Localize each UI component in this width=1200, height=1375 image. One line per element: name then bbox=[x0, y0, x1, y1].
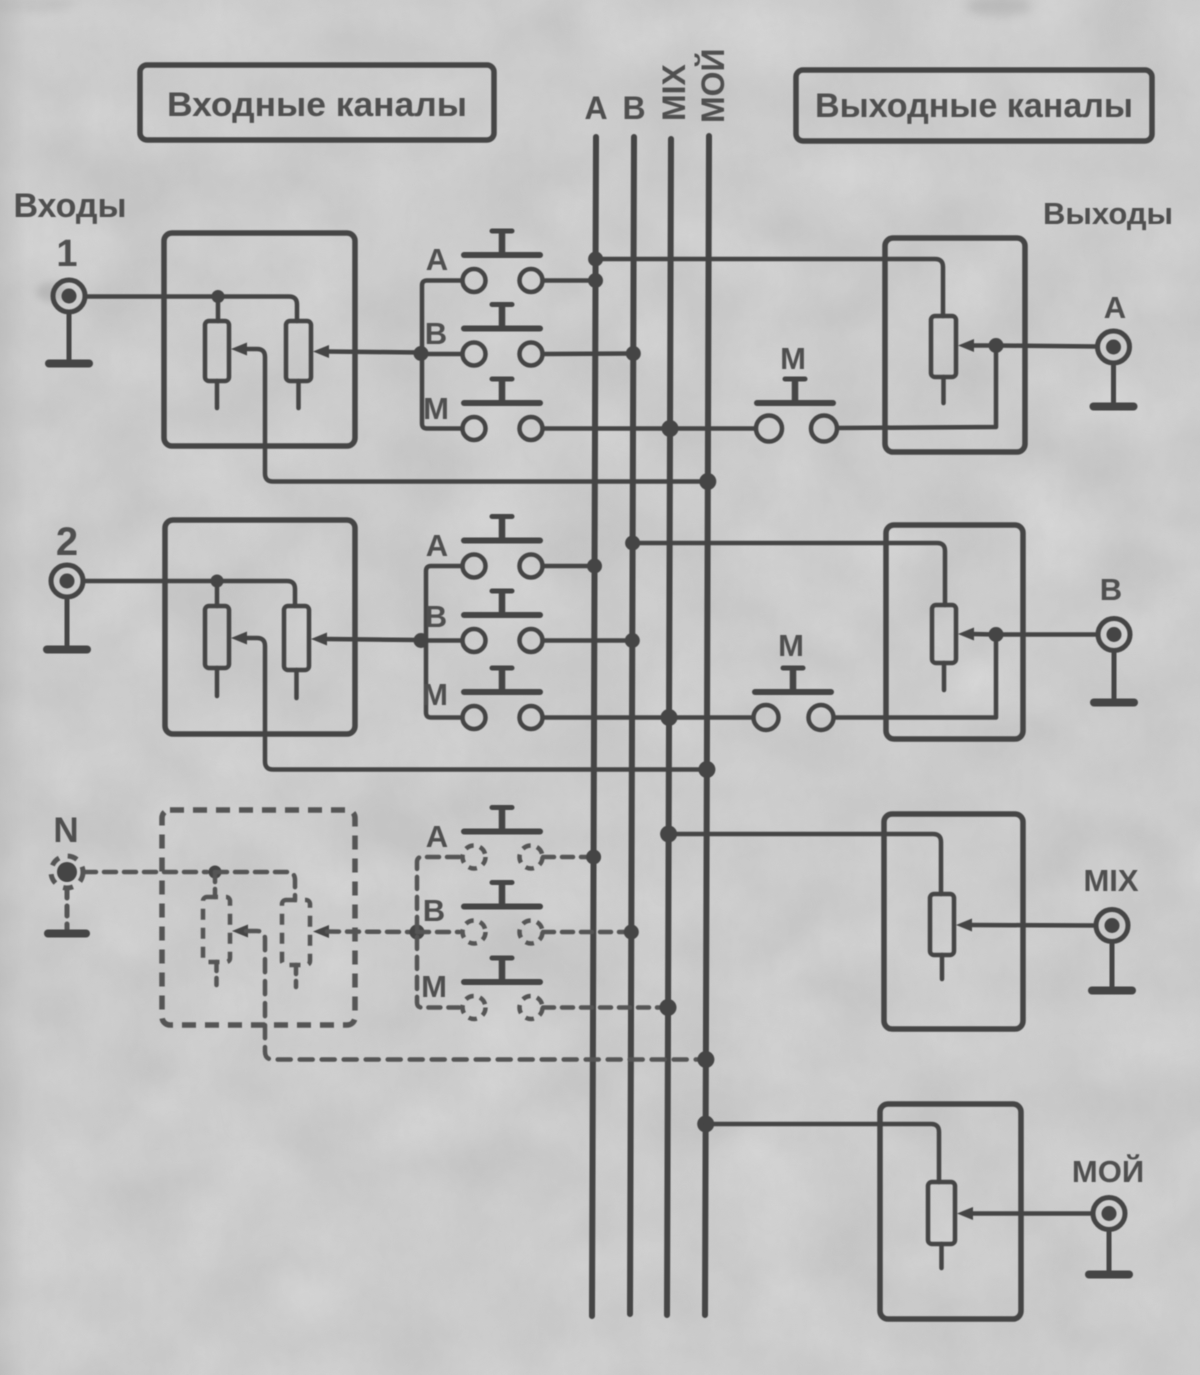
label chN B bbox=[423, 893, 445, 928]
svg-text:B: B bbox=[423, 893, 445, 928]
output jack MIX bbox=[1096, 910, 1128, 942]
box output A bbox=[885, 238, 1025, 452]
ch1 selector branch bbox=[422, 281, 462, 429]
wire busMOJ-outMOJ bbox=[706, 1124, 939, 1182]
wiper RNa arrow bbox=[232, 925, 248, 938]
label N bbox=[53, 811, 78, 850]
wire ch1 monitor send bbox=[244, 349, 708, 482]
svg-text:МОЙ: МОЙ bbox=[1072, 1153, 1144, 1189]
label pbM outA bbox=[780, 341, 806, 376]
switch ch1-B bbox=[463, 305, 543, 366]
svg-text:Выходные каналы: Выходные каналы bbox=[815, 87, 1133, 125]
stem outB bbox=[942, 663, 947, 690]
wire chNM-busMIX bbox=[543, 1005, 668, 1010]
pb M outB actuator bbox=[755, 668, 831, 692]
input-channels title text bbox=[167, 86, 467, 124]
wire ch1M-pbM bbox=[543, 426, 755, 431]
label jack MOJ bbox=[1072, 1153, 1144, 1189]
node chNB busB bbox=[624, 925, 639, 940]
wire ch2A-busA bbox=[543, 564, 595, 569]
wire ch2M-pbM bbox=[543, 715, 753, 720]
label pbM outB bbox=[778, 628, 804, 663]
svg-text:Входы: Входы bbox=[13, 187, 126, 225]
svg-text:A: A bbox=[1104, 290, 1126, 325]
bus MOJ bbox=[705, 136, 709, 1315]
wiper outMOJ arrow bbox=[957, 1207, 973, 1220]
svg-text:N: N bbox=[53, 811, 78, 850]
pb M outA actuator bbox=[757, 379, 833, 403]
box output B bbox=[886, 525, 1023, 739]
stem R1a bbox=[215, 381, 220, 408]
wire busB-outB bbox=[633, 543, 945, 605]
svg-text:2: 2 bbox=[56, 520, 78, 564]
box input channel N bbox=[162, 810, 355, 1025]
ground jackN bbox=[48, 888, 86, 934]
wire ch2B-busB bbox=[543, 638, 632, 643]
ground jackA bbox=[1094, 363, 1134, 407]
switch chN-A bbox=[463, 808, 543, 869]
node outB post-fader bbox=[989, 627, 1004, 642]
node ch2M MIX bbox=[661, 709, 678, 726]
wiper R2b arrow bbox=[311, 633, 327, 646]
node ch1-MOJ bbox=[699, 473, 716, 490]
ground jackMOJ bbox=[1089, 1230, 1129, 1275]
svg-text:B: B bbox=[622, 90, 645, 126]
label Vyhody bbox=[1043, 196, 1173, 231]
wire jack2-box bbox=[84, 579, 213, 584]
wiper outMIX arrow bbox=[956, 919, 972, 932]
svg-text:A: A bbox=[426, 242, 448, 277]
switch ch2-M bbox=[463, 668, 543, 729]
pot RNa (monitor send) bbox=[203, 897, 230, 962]
stem outA bbox=[941, 377, 946, 403]
bus B bbox=[630, 137, 634, 1314]
node feedMIX bbox=[660, 826, 677, 843]
wire chN monitor send bbox=[246, 931, 706, 1060]
input jack 1 bbox=[53, 280, 85, 312]
label chN M bbox=[421, 969, 447, 1004]
stem R1b bbox=[296, 381, 301, 408]
pot R2b (channel fader) bbox=[284, 606, 309, 670]
wire chN to RNa bbox=[213, 872, 218, 897]
output jack MOJ bbox=[1093, 1198, 1125, 1230]
node ch2A busA bbox=[587, 559, 602, 574]
wire pbM-outA bbox=[838, 346, 996, 429]
wire outMIX-jack bbox=[970, 923, 1096, 928]
svg-text:B: B bbox=[1100, 572, 1122, 607]
ground jack1 bbox=[49, 312, 89, 364]
pb M outB contacts bbox=[754, 705, 834, 730]
pot RNb (channel fader) bbox=[282, 900, 310, 965]
input jack N bbox=[51, 856, 83, 888]
node chNA busA bbox=[586, 850, 601, 865]
node feedB busB bbox=[625, 536, 640, 551]
jack1 smudge bbox=[36, 282, 68, 302]
box input channel 2 bbox=[165, 520, 355, 734]
wire outB wiper bbox=[972, 632, 994, 637]
svg-text:A: A bbox=[584, 90, 607, 126]
node ch1 split bbox=[212, 290, 225, 303]
wire outA wiper bbox=[972, 343, 994, 348]
stem RNa bbox=[214, 962, 219, 985]
box output MOJ bbox=[880, 1104, 1021, 1319]
switch ch2-A bbox=[463, 517, 543, 578]
switch chN-M bbox=[463, 958, 543, 1019]
label ch2 A bbox=[426, 528, 448, 563]
wire chNB-busB bbox=[543, 930, 631, 935]
label jack A bbox=[1104, 290, 1126, 325]
bus label MIX bbox=[656, 63, 692, 121]
wiper R1b arrow bbox=[313, 345, 329, 358]
input jack 2 bbox=[51, 565, 83, 597]
switch ch1-M bbox=[463, 379, 543, 440]
node ch2 split bbox=[211, 575, 224, 588]
label ch1 B bbox=[425, 316, 447, 351]
pot outMIX fader bbox=[930, 894, 954, 955]
node ch2-MOJ bbox=[698, 761, 715, 778]
wire chN fader out bbox=[327, 929, 415, 934]
label ch2 B bbox=[425, 599, 447, 634]
switch ch1-A bbox=[463, 231, 543, 292]
stem RNb bbox=[294, 965, 299, 987]
label 1 bbox=[56, 233, 77, 275]
svg-text:M: M bbox=[780, 341, 806, 376]
pb M outA contacts bbox=[756, 416, 837, 442]
svg-text:A: A bbox=[426, 528, 448, 563]
stem R2a bbox=[215, 668, 220, 696]
output jack B bbox=[1098, 619, 1130, 651]
svg-text:MIX: MIX bbox=[1083, 863, 1138, 898]
wire chN to RNb bbox=[215, 872, 295, 900]
node outA post-fader bbox=[989, 338, 1004, 353]
bus MIX bbox=[667, 139, 671, 1315]
stem outMIX bbox=[940, 955, 945, 979]
bus label B bbox=[622, 90, 645, 126]
node ch1B busB bbox=[626, 346, 641, 361]
output jack A bbox=[1098, 331, 1130, 363]
pot outB fader bbox=[932, 605, 956, 663]
chN selector branch bbox=[417, 857, 459, 1008]
switch ch2-B bbox=[463, 591, 543, 652]
node chN split bbox=[209, 866, 222, 879]
svg-text:МОЙ: МОЙ bbox=[695, 48, 731, 123]
label ch2 M bbox=[422, 677, 448, 712]
svg-text:Входные каналы: Входные каналы bbox=[167, 86, 467, 124]
wire ch2 monitor send bbox=[244, 638, 707, 770]
edge shading bbox=[0, 0, 26, 1375]
label jack B bbox=[1100, 572, 1122, 607]
wire outA-jackA bbox=[996, 346, 1097, 347]
wiper outB arrow bbox=[958, 628, 974, 641]
node chN branch bbox=[410, 925, 425, 940]
wiper R1a arrow bbox=[231, 343, 247, 356]
wiper R2a arrow bbox=[231, 632, 247, 645]
wire ch1 to R1b bbox=[218, 297, 297, 322]
stem outMOJ bbox=[939, 1244, 944, 1268]
node feedMOJ bbox=[697, 1116, 714, 1133]
ch2 selector branch bbox=[426, 566, 462, 718]
wire ch2 to R2a bbox=[215, 581, 220, 606]
wire ch1 to R1a bbox=[216, 297, 221, 322]
node feedA busA bbox=[588, 252, 603, 267]
svg-text:B: B bbox=[425, 599, 447, 634]
wire jackN-box bbox=[84, 870, 207, 875]
ground jack2 bbox=[47, 597, 87, 650]
label Vhody bbox=[13, 187, 126, 225]
wire busA-outA bbox=[596, 259, 943, 316]
node chN-MOJ bbox=[697, 1051, 714, 1068]
ground jackMIX bbox=[1092, 942, 1132, 991]
label 2 bbox=[56, 520, 78, 564]
svg-text:A: A bbox=[426, 819, 448, 854]
svg-text:Выходы: Выходы bbox=[1043, 196, 1173, 231]
pot R2a (monitor send) bbox=[205, 606, 229, 668]
node ch2B busB bbox=[625, 633, 640, 648]
stem R2b bbox=[294, 670, 299, 698]
wire ch1A-busA bbox=[543, 278, 596, 283]
svg-text:MIX: MIX bbox=[656, 63, 692, 121]
node ch1A busA bbox=[588, 273, 603, 288]
svg-text:B: B bbox=[425, 316, 447, 351]
wire ch2 fader out bbox=[325, 639, 420, 640]
wire ch1 fader out bbox=[327, 352, 420, 353]
wire outMOJ-jack bbox=[971, 1211, 1093, 1216]
svg-text:M: M bbox=[778, 628, 804, 663]
node ch2 branch bbox=[414, 633, 429, 648]
wire ch1B-busB bbox=[543, 351, 633, 356]
pot outMOJ fader bbox=[928, 1182, 955, 1244]
label chN A bbox=[426, 819, 448, 854]
label jack MIX bbox=[1083, 863, 1138, 898]
wire outB-jackB bbox=[996, 632, 1098, 637]
box output MIX bbox=[884, 814, 1023, 1029]
wiper RNb arrow bbox=[313, 925, 329, 938]
input-channels title box bbox=[140, 65, 494, 140]
svg-text:M: M bbox=[422, 677, 448, 712]
svg-text:M: M bbox=[421, 969, 447, 1004]
box input channel 1 bbox=[164, 233, 355, 446]
wire ch2 to R2b bbox=[217, 581, 295, 606]
wire busMIX-outMIX bbox=[669, 834, 941, 894]
wire jack1-box bbox=[86, 294, 214, 299]
bus label MOJ bbox=[695, 48, 731, 123]
svg-text:1: 1 bbox=[56, 233, 77, 275]
pot R1a (monitor send) bbox=[205, 321, 229, 381]
node chNM MIX bbox=[660, 999, 677, 1016]
ground jackB bbox=[1094, 651, 1134, 703]
node ch1M MIX bbox=[662, 420, 679, 437]
wire pbM-outB bbox=[834, 635, 996, 718]
node ch1 branch bbox=[414, 346, 429, 361]
wiper outA arrow bbox=[958, 339, 974, 352]
pot outA fader bbox=[931, 316, 956, 377]
label ch1 M bbox=[423, 391, 449, 426]
svg-text:M: M bbox=[423, 391, 449, 426]
bus A bbox=[592, 137, 596, 1316]
output-channels title box bbox=[796, 70, 1152, 141]
switch chN-B bbox=[463, 883, 543, 944]
output-channels title text bbox=[815, 87, 1133, 125]
wire chNA-busA bbox=[543, 855, 594, 860]
label ch1 A bbox=[426, 242, 448, 277]
bus label A bbox=[584, 90, 607, 126]
pot R1b (channel fader) bbox=[286, 321, 311, 381]
